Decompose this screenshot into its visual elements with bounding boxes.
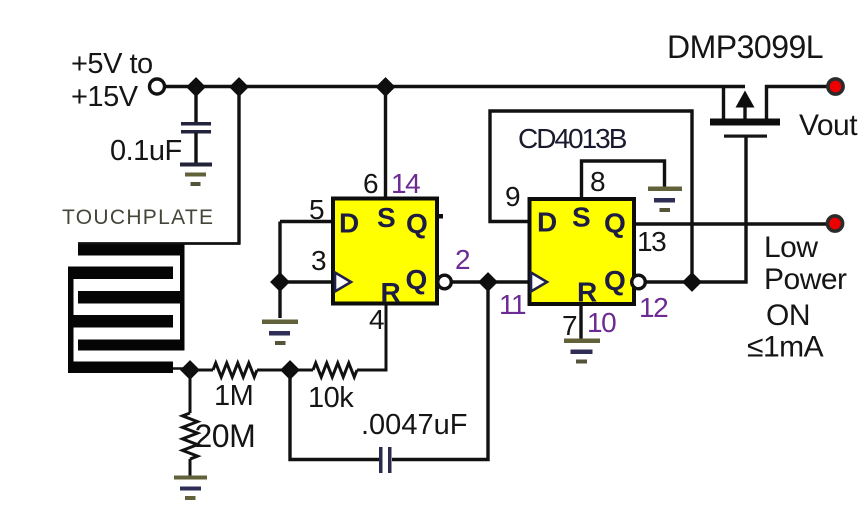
ground (below C1) — [180, 163, 212, 187]
op-amp U2 flip-flop CD4013B half B — [530, 199, 635, 308]
svg-text:Low: Low — [764, 231, 818, 264]
touchplate electrode (interdigitated) — [68, 245, 185, 374]
ground (below R3) — [174, 476, 207, 501]
Vout terminal — [828, 79, 843, 94]
svg-text:Q: Q — [604, 208, 626, 239]
svg-text:9: 9 — [505, 181, 520, 212]
U1 clock arrow — [335, 273, 351, 292]
Q1 source lead — [722, 87, 725, 120]
svg-text:3: 3 — [311, 245, 326, 276]
svg-text:20M: 20M — [195, 418, 256, 454]
capacitor C2 .0047uF — [290, 370, 392, 473]
svg-text:8: 8 — [590, 166, 605, 197]
svg-text:10k: 10k — [308, 382, 354, 414]
node: junction pin2 / C2 — [480, 274, 497, 291]
svg-text:DMP3099L: DMP3099L — [667, 29, 823, 65]
supply input terminal — [150, 79, 165, 94]
Q1 body bar — [710, 119, 780, 126]
wire: U1 clock input (pin 3) — [280, 280, 333, 283]
svg-text:0.1uF: 0.1uF — [110, 135, 182, 167]
node: junction pin3 tie — [272, 274, 289, 291]
wire: junction down to touchplate — [237, 87, 240, 244]
wire: top supply rail — [165, 85, 745, 88]
svg-text:CD4013B: CD4013B — [518, 123, 627, 154]
svg-text:1M: 1M — [214, 380, 253, 412]
ground (U2 pin 7) — [564, 339, 600, 364]
wire: U1 D input (pin 5) — [280, 220, 333, 223]
svg-text:13: 13 — [637, 226, 666, 257]
wire: U2 pin 7/10 to ground — [579, 304, 582, 339]
svg-text:4: 4 — [369, 304, 384, 335]
wire: U1 pin14 from top rail — [384, 87, 387, 199]
wire: touchplate to junction — [173, 367, 190, 370]
svg-text:Q: Q — [406, 208, 428, 239]
transistor Q1 DMP3099L P-MOSFET — [710, 87, 827, 138]
node: junction top rail / touchplate — [231, 79, 248, 96]
svg-text:R: R — [381, 277, 401, 308]
svg-text:5: 5 — [309, 194, 324, 225]
Q1 drain lead — [767, 87, 828, 120]
svg-text:S: S — [377, 202, 396, 233]
node: junction pin12 / feedback — [684, 274, 701, 291]
svg-text:2: 2 — [455, 244, 470, 275]
svg-text:Q: Q — [604, 265, 626, 296]
svg-text:R: R — [577, 277, 597, 308]
op-amp U1 flip-flop CD4013B half A — [333, 199, 443, 309]
svg-text:D: D — [537, 207, 557, 238]
wire: U1 D/clock tie-down vertical — [278, 222, 281, 319]
node: junction touchplate / R1 / R2 — [182, 362, 199, 379]
U2 clock arrow — [531, 273, 547, 292]
svg-text:11: 11 — [499, 289, 526, 320]
wire: U1 Qbar to U2 clock — [452, 280, 530, 283]
ground (U2 pin 8) — [648, 187, 682, 213]
wire: U2 Q pin 13 to Low Power terminal — [634, 222, 827, 225]
wire: C2 branch down — [392, 282, 488, 460]
node: junction top rail / U1 pin14 — [377, 79, 394, 96]
resistor R2 10k — [290, 303, 386, 377]
wire: junction down to capacitor C1 — [194, 87, 197, 122]
resistor R3 20M — [183, 370, 198, 476]
U2 Qbar output bubble pin 12 — [632, 275, 646, 289]
Low Power terminal — [827, 216, 842, 231]
node: junction R1 / R2 / C2 — [282, 362, 299, 379]
capacitor C1 0.1uF — [181, 122, 211, 164]
svg-text:≤1mA: ≤1mA — [747, 331, 824, 364]
svg-text:12: 12 — [639, 292, 668, 323]
svg-text:.0047uF: .0047uF — [361, 409, 467, 441]
feedback loop wire U2 Qbar to D (pin 9) — [490, 111, 692, 282]
wire: U2 Qbar to gate — [646, 137, 747, 282]
resistor R1 1M — [190, 363, 290, 377]
svg-text:Q: Q — [406, 264, 428, 295]
svg-text:14: 14 — [391, 168, 420, 199]
svg-text:6: 6 — [363, 168, 378, 199]
svg-text:+15V: +15V — [71, 81, 139, 113]
U1 Qbar output bubble — [438, 275, 452, 289]
wire: U2 pin 8 to ground — [582, 161, 665, 199]
svg-text:D: D — [339, 208, 359, 239]
svg-text:Power: Power — [764, 263, 847, 296]
node: junction top rail / 0.1uF — [188, 79, 205, 96]
svg-text:ON: ON — [766, 299, 810, 332]
ground (U1 clock) — [262, 320, 298, 346]
svg-text:TOUCHPLATE: TOUCHPLATE — [62, 206, 214, 229]
svg-text:7: 7 — [562, 310, 577, 341]
svg-text:S: S — [572, 202, 591, 233]
svg-text:Vout: Vout — [799, 109, 858, 142]
U1 Q stub — [437, 214, 443, 219]
Q1 body arrow — [743, 104, 746, 119]
Q1 gate bar — [724, 135, 767, 138]
svg-text:+5V to: +5V to — [71, 48, 153, 80]
svg-text:10: 10 — [587, 307, 616, 338]
